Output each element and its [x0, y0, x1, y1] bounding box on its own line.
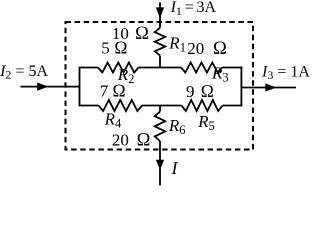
wire: R1 bottom lead to top rail junction — [159, 56, 161, 69]
wire: top rail right segment — [222, 67, 242, 69]
arrowhead for I2 pointing right — [37, 83, 48, 91]
resistor R1 — [155, 28, 165, 56]
svg-text:20 Ω: 20 Ω — [187, 39, 227, 59]
svg-text:I: I — [171, 158, 179, 178]
svg-text:I3 = 1A: I3 = 1A — [261, 63, 310, 82]
svg-text:R1: R1 — [168, 34, 186, 55]
svg-text:9 Ω: 9 Ω — [186, 81, 214, 101]
wire: left rail — [79, 67, 81, 107]
wire: top lead into box carrying I1 — [159, 3, 161, 28]
arrowhead for I pointing down — [156, 160, 164, 170]
wire: left lead into box carrying I2 — [21, 86, 81, 88]
resistor R4 — [99, 100, 143, 111]
wire: bottom rail middle segment — [142, 105, 182, 107]
wire: top rail left segment — [80, 67, 99, 69]
svg-text:5 Ω: 5 Ω — [101, 37, 127, 57]
resistor R3 — [181, 63, 222, 73]
svg-text:R6: R6 — [168, 116, 186, 137]
svg-text:R4: R4 — [104, 109, 122, 130]
svg-text:I1 = 3A: I1 = 3A — [170, 0, 217, 18]
dashed boundary box — [66, 22, 254, 150]
wire: top rail middle segment — [139, 67, 182, 69]
svg-text:I2 = 5A: I2 = 5A — [0, 63, 48, 82]
resistor R2 — [98, 63, 139, 73]
svg-text:R5: R5 — [197, 112, 215, 133]
resistor R5 — [182, 100, 223, 111]
wire: bottom rail left segment — [80, 105, 99, 107]
wire: right rail — [240, 67, 242, 107]
resistor R6 — [155, 112, 165, 141]
wire: bottom rail right segment — [223, 105, 243, 107]
wire: bottom lead out of box carrying I — [159, 141, 161, 186]
wire: right lead out of box carrying I3 — [241, 87, 297, 89]
arrowhead for I3 pointing right — [265, 83, 276, 91]
arrowhead for I1 pointing down — [156, 7, 164, 18]
svg-text:20 Ω: 20 Ω — [112, 131, 151, 151]
wire: bottom rail junction down to R6 — [159, 106, 161, 112]
svg-text:7 Ω: 7 Ω — [100, 81, 126, 101]
